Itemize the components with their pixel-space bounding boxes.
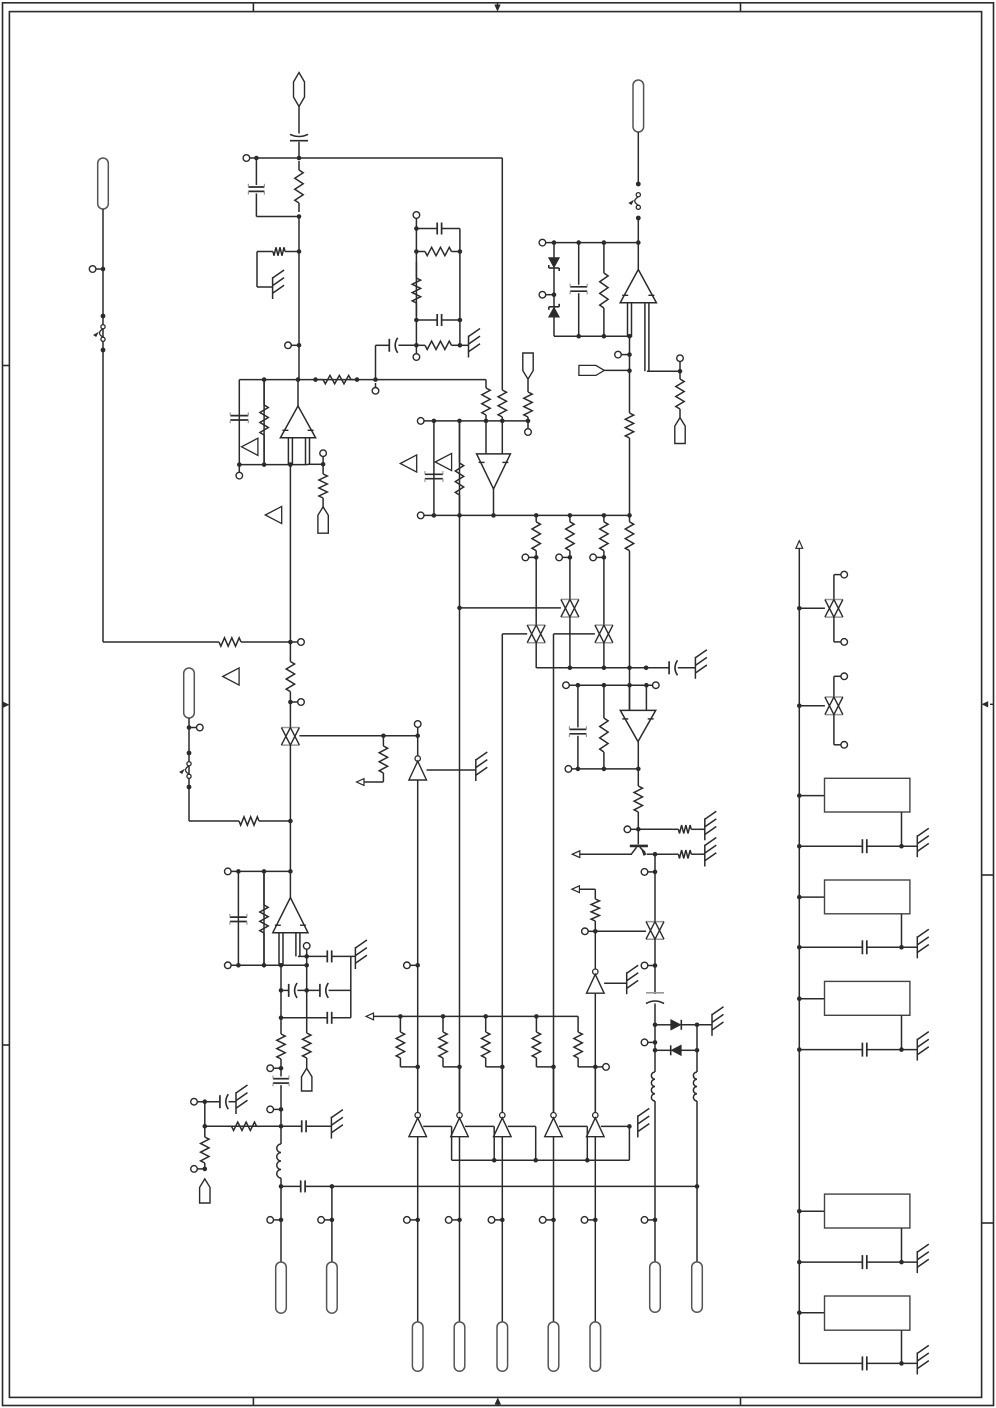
- resistor R31: [227, 1122, 260, 1130]
- zener diode D2: [549, 304, 559, 317]
- wire stub: [238, 465, 240, 473]
- wire stub: [527, 421, 529, 429]
- junction: [236, 963, 241, 968]
- terminal: [556, 554, 563, 561]
- junction: [415, 734, 420, 739]
- wire: [280, 1186, 282, 1262]
- wire stub: [197, 1168, 204, 1170]
- terminal: [417, 418, 424, 425]
- wire stub: [322, 457, 324, 465]
- wire: [289, 702, 291, 728]
- junction: [484, 419, 489, 424]
- junction: [695, 1048, 700, 1053]
- junction: [602, 240, 607, 245]
- wire box tap: [799, 998, 824, 1000]
- wire: [306, 956, 308, 990]
- diode D3: [671, 1020, 681, 1030]
- wire bus y158: [250, 157, 503, 159]
- connector J: [412, 1322, 423, 1371]
- junction: [398, 1014, 403, 1019]
- junction: [797, 996, 802, 1001]
- connector J8: [692, 1262, 703, 1312]
- terminal: [225, 962, 232, 969]
- wire: [399, 1060, 401, 1067]
- wire: [603, 557, 605, 625]
- junction: [585, 1158, 590, 1163]
- wire buffer right stub: [604, 982, 626, 984]
- resistor R32: [201, 1135, 209, 1169]
- zener diode D1: [549, 258, 559, 271]
- wire: [577, 685, 579, 727]
- attenuator T1: [281, 728, 299, 746]
- junction: [899, 1260, 904, 1265]
- wire: [442, 1060, 444, 1067]
- wire: [553, 1220, 555, 1322]
- junction: [414, 226, 419, 231]
- wire stub: [325, 1219, 332, 1221]
- polarized capacitor C11: [646, 993, 664, 1004]
- junction: [279, 1124, 284, 1129]
- wire: [459, 1220, 461, 1322]
- capacitor C8: [425, 471, 443, 482]
- wire: [578, 293, 580, 336]
- wire stub: [290, 701, 297, 703]
- block X1: [825, 778, 910, 812]
- junction: [797, 793, 802, 798]
- wire stub: [291, 344, 299, 346]
- wire col697: [696, 1025, 698, 1072]
- polarized capacitor C5: [389, 338, 397, 353]
- attenuator T2: [561, 599, 579, 617]
- wire bus y243: [546, 242, 639, 244]
- terminal: [565, 766, 572, 773]
- resistor R19: [532, 515, 540, 557]
- connector J12: [327, 1262, 338, 1313]
- terminal: [653, 682, 660, 689]
- junction: [492, 1158, 497, 1163]
- net flag: [579, 365, 604, 375]
- wire row956: [307, 955, 328, 957]
- junction: [432, 419, 437, 424]
- wire box output: [901, 1015, 903, 1049]
- terminal: [413, 354, 420, 361]
- junction: [313, 377, 318, 382]
- wire: [255, 193, 257, 216]
- wire: [332, 955, 355, 957]
- wire: [696, 1101, 698, 1262]
- terminal: [191, 1098, 198, 1105]
- resistor R29: [303, 1031, 311, 1068]
- terminal: [404, 962, 411, 969]
- junction: [304, 954, 309, 959]
- junction: [297, 343, 302, 348]
- wire: [415, 345, 417, 353]
- ground: [469, 329, 481, 358]
- wire col416: [415, 218, 417, 345]
- resistor R24: [634, 783, 642, 829]
- capacitor C10: [569, 726, 586, 737]
- resistor R26: [672, 850, 697, 858]
- wire: [654, 1101, 656, 1220]
- resistor R8: [676, 371, 684, 417]
- junction: [653, 1048, 658, 1053]
- wire: [298, 142, 300, 158]
- wire: [833, 715, 835, 745]
- op-amp U2: [620, 270, 656, 303]
- spark gap E3: [179, 751, 191, 790]
- terminal: [615, 351, 622, 358]
- capacitor C3: [437, 223, 441, 235]
- wire: [485, 1060, 487, 1067]
- junction: [534, 513, 539, 518]
- terminal: [539, 291, 546, 298]
- wire: [417, 1137, 419, 1220]
- capacitor CR4: [862, 1255, 866, 1269]
- terminal: [841, 639, 848, 646]
- junction: [457, 1065, 462, 1070]
- terminal: [267, 1106, 274, 1113]
- wire row1018: [281, 1017, 327, 1019]
- connector J2: [633, 80, 644, 132]
- ground: [917, 1345, 929, 1374]
- wire: [459, 515, 461, 608]
- wire: [308, 463, 324, 465]
- capacitor C7: [230, 412, 248, 423]
- buffer U6: [587, 969, 605, 993]
- wire cap row: [799, 946, 862, 948]
- junction: [414, 249, 419, 254]
- wire: [329, 989, 351, 991]
- junction: [500, 1218, 505, 1223]
- junction: [304, 963, 309, 968]
- terminal: [303, 943, 310, 950]
- ground: [695, 650, 707, 679]
- ground: [917, 1244, 929, 1273]
- junction: [551, 1218, 556, 1223]
- junction: [568, 513, 573, 518]
- terminal: [89, 266, 96, 273]
- wire stub: [648, 1041, 655, 1043]
- wire A4 in+: [629, 685, 631, 710]
- wire col459 long: [459, 608, 461, 1113]
- connector J: [548, 1322, 559, 1371]
- junction: [288, 462, 293, 467]
- junction: [262, 869, 267, 874]
- wire stub: [595, 1066, 602, 1068]
- connector J: [497, 1322, 508, 1371]
- connector J6: [523, 353, 533, 379]
- wire: [501, 1220, 503, 1322]
- net flag: [242, 438, 258, 455]
- wire: [204, 1102, 206, 1135]
- wire stub: [495, 1219, 502, 1221]
- terminal: [581, 1217, 588, 1224]
- wire: [332, 1017, 351, 1019]
- wire: [535, 1060, 537, 1067]
- wire: [257, 286, 272, 288]
- wire U1 out: [297, 380, 299, 406]
- junction: [187, 725, 192, 730]
- attenuator T3: [527, 625, 545, 643]
- junction: [414, 318, 419, 323]
- border center mark left: [3, 704, 7, 706]
- arrow: [572, 886, 580, 893]
- ground: [705, 811, 717, 840]
- terminal: [539, 239, 546, 246]
- capacitor C6: [570, 284, 587, 295]
- junction: [627, 368, 632, 373]
- terminal: [641, 1039, 648, 1046]
- junction: [627, 352, 632, 357]
- junction: [288, 640, 293, 645]
- wire bus y421: [424, 420, 528, 422]
- wire A4 in-: [645, 685, 647, 710]
- terminal: [298, 639, 305, 646]
- wire: [256, 252, 258, 288]
- connector J7: [650, 1262, 661, 1312]
- border center mark bottom: [497, 1400, 499, 1406]
- terminal: [624, 826, 631, 833]
- junction: [321, 462, 326, 467]
- resistor R25: [672, 825, 697, 833]
- wire: [197, 1101, 220, 1103]
- buffer U: [494, 1113, 512, 1137]
- wire: [594, 1137, 596, 1220]
- junction: [279, 1218, 284, 1223]
- junction: [491, 513, 496, 518]
- junction: [653, 870, 658, 875]
- terminal: [267, 1217, 274, 1224]
- junction: [797, 945, 802, 950]
- wire col629: [629, 336, 631, 408]
- junction: [644, 683, 649, 688]
- block X3: [825, 981, 910, 1015]
- capacitor C19: [302, 1120, 306, 1132]
- wire cap row: [799, 1049, 862, 1051]
- resistor R10: [260, 380, 268, 465]
- junction: [279, 1016, 284, 1021]
- junction: [627, 513, 632, 518]
- wire: [256, 216, 299, 218]
- wire: [433, 421, 435, 516]
- wire bus y668: [536, 667, 669, 669]
- capacitor CR5: [862, 1356, 866, 1370]
- connector J: [590, 1322, 601, 1371]
- terminal: [603, 1064, 610, 1071]
- block X4: [825, 1194, 910, 1228]
- wire: [263, 380, 265, 465]
- resistor R17: [498, 388, 506, 421]
- wire stub: [274, 1067, 281, 1069]
- wire col418: [417, 780, 419, 1067]
- attenuator T6: [825, 600, 843, 618]
- resistor R: [532, 1016, 540, 1060]
- wire: [594, 1067, 596, 1113]
- terminal: [191, 1166, 198, 1173]
- terminal: [298, 699, 305, 706]
- polarized capacitor C9: [669, 660, 677, 675]
- wire: [681, 1024, 711, 1026]
- junction: [533, 1158, 538, 1163]
- terminal: [841, 673, 848, 680]
- junction: [602, 767, 607, 772]
- wire diode row1: [655, 1024, 671, 1026]
- wire col299: [298, 217, 300, 380]
- buffer U3: [409, 756, 427, 780]
- wire stub: [290, 641, 297, 643]
- border zone tick bottom right: [740, 1397, 742, 1405]
- terminal: [677, 355, 684, 362]
- wire stub: [417, 727, 419, 736]
- arrow rail top: [796, 541, 803, 549]
- junction: [797, 606, 802, 611]
- wire stub: [274, 1219, 281, 1221]
- border zone tick left lower: [3, 1044, 10, 1046]
- wire: [417, 1220, 419, 1322]
- junction: [254, 156, 259, 161]
- wire stub: [588, 930, 595, 932]
- junction: [593, 1065, 598, 1070]
- wire box output: [901, 1228, 903, 1262]
- wire stub: [410, 1219, 417, 1221]
- wire: [237, 871, 239, 965]
- junction: [304, 988, 309, 993]
- wire cap row: [799, 1362, 862, 1364]
- wire box tap: [799, 1312, 824, 1314]
- junction: [797, 1209, 802, 1214]
- resistor R row642: [213, 638, 246, 646]
- junction: [297, 156, 302, 161]
- spark gap E2: [628, 182, 640, 221]
- wire col553 long: [553, 634, 555, 1113]
- junction: [262, 462, 267, 467]
- wire row1186: [281, 1185, 301, 1187]
- junction: [797, 895, 802, 900]
- wire: [867, 1261, 917, 1263]
- wire rail y380: [239, 379, 486, 381]
- block X5: [825, 1296, 910, 1330]
- wire rail y965: [231, 964, 307, 966]
- wire Q1 base: [580, 853, 632, 855]
- junction: [636, 240, 641, 245]
- wire: [280, 1178, 282, 1186]
- terminal: [488, 1217, 495, 1224]
- ground: [627, 965, 639, 994]
- op-amp U4: [477, 454, 511, 489]
- ground: [355, 940, 367, 969]
- wire: [417, 736, 419, 756]
- wire row769: [572, 768, 639, 770]
- wire: [654, 1220, 656, 1262]
- terminal: [641, 869, 648, 876]
- wire stub: [452, 1219, 459, 1221]
- wire: [637, 132, 639, 184]
- resistor R7: [625, 408, 633, 443]
- wire: [501, 1137, 503, 1220]
- wire: [834, 574, 841, 576]
- wire: [399, 344, 417, 346]
- junction: [627, 334, 632, 339]
- wire row990: [281, 989, 289, 991]
- wire U2 left leg: [627, 303, 629, 337]
- wire stub: [306, 949, 308, 956]
- junction: [203, 1124, 208, 1129]
- terminal: [445, 1217, 452, 1224]
- connector J3: [675, 418, 685, 444]
- wire row829: [638, 828, 672, 830]
- wire stub: [648, 965, 655, 967]
- attenuator T5: [646, 922, 664, 940]
- wire right rail: [798, 548, 800, 1363]
- wire: [459, 1137, 461, 1220]
- wire: [579, 888, 595, 890]
- resistor R21: [600, 515, 608, 557]
- resistor R30: [277, 1032, 285, 1061]
- wire U4 out: [493, 489, 495, 516]
- wire: [255, 158, 257, 185]
- junction: [797, 844, 802, 849]
- wire RB1 tap: [799, 607, 825, 609]
- junction: [797, 1260, 802, 1265]
- terminal: [320, 450, 327, 457]
- capacitor C20: [301, 1180, 305, 1192]
- wire col595: [594, 931, 596, 969]
- wire stub: [563, 556, 570, 558]
- wire: [416, 319, 437, 321]
- junction: [602, 666, 607, 671]
- wire Q1 emitter: [647, 853, 655, 855]
- wire row821: [189, 820, 233, 822]
- wire rail y515: [424, 514, 630, 516]
- wire col189: [188, 718, 190, 821]
- wire: [553, 1137, 555, 1220]
- terminal: [563, 682, 570, 689]
- wire: [681, 1049, 697, 1051]
- capacitor C13: [327, 950, 331, 962]
- wire: [553, 317, 555, 336]
- junction: [552, 240, 557, 245]
- ground: [705, 838, 717, 867]
- junction: [602, 513, 607, 518]
- resistor R11: [319, 464, 327, 507]
- ground: [331, 1110, 343, 1139]
- junction: [568, 666, 573, 671]
- junction: [262, 377, 267, 382]
- wire col460: [459, 229, 461, 346]
- terminal: [267, 1065, 274, 1072]
- resistor R27: [591, 897, 599, 931]
- junction: [627, 666, 632, 671]
- junction: [237, 462, 242, 467]
- capacitor CR2: [862, 940, 866, 954]
- junction: [534, 555, 539, 560]
- wire: [298, 955, 307, 957]
- junction: [576, 683, 581, 688]
- wire: [604, 369, 629, 371]
- wire box output: [901, 914, 903, 948]
- border center mark right: [990, 703, 994, 705]
- capacitor C12: [230, 914, 247, 925]
- wire stub: [546, 1219, 553, 1221]
- junction: [441, 1014, 446, 1019]
- junction: [797, 704, 802, 709]
- junction: [653, 963, 658, 968]
- junction: [262, 963, 267, 968]
- junction: [297, 249, 302, 254]
- junction: [279, 1066, 284, 1071]
- terminal: [372, 388, 379, 395]
- wire: [867, 1362, 917, 1364]
